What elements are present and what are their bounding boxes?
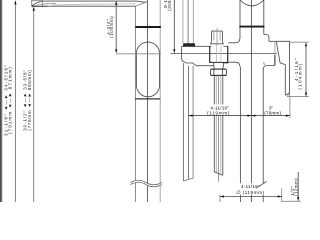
svg-text:(108mm): (108mm) bbox=[109, 16, 114, 38]
svg-text:(775mm ◄—► 855mm): (775mm ◄—► 855mm) bbox=[27, 69, 32, 130]
svg-text:(12mm): (12mm) bbox=[294, 178, 299, 196]
svg-text:(206mm): (206mm) bbox=[167, 0, 172, 11]
svg-text:∅ (119mm): ∅ (119mm) bbox=[236, 190, 264, 196]
svg-text:(104mm): (104mm) bbox=[298, 62, 303, 89]
svg-text:(791mm ◄—► 871mm): (791mm ◄—► 871mm) bbox=[8, 66, 13, 134]
svg-text:(119mm): (119mm) bbox=[207, 110, 230, 116]
svg-text:4-11/16": 4-11/16" bbox=[241, 184, 260, 190]
svg-text:(76mm): (76mm) bbox=[264, 110, 281, 116]
svg-text:3": 3" bbox=[269, 105, 274, 111]
